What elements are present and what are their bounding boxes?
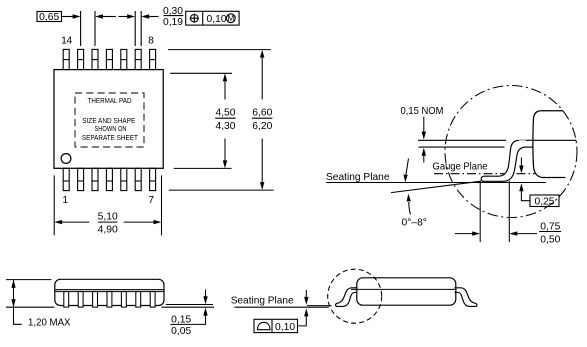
svg-text:4,90: 4,90 bbox=[98, 225, 118, 236]
top pins row (pins 14..8) bbox=[63, 49, 155, 69]
detail boundary dash-dot circle bbox=[445, 86, 577, 218]
0,65 leader arrow to pin2 centerline bbox=[62, 16, 74, 18]
lead frame parting line lower bbox=[55, 291, 163, 293]
5,10/4,90 width dimension bbox=[54, 175, 161, 235]
gull-wing lead (white filled body of lead) bbox=[481, 140, 526, 181]
1,20 MAX leader bbox=[14, 307, 22, 324]
seating plane arrow down bbox=[305, 290, 307, 298]
svg-text:0,10: 0,10 bbox=[207, 14, 227, 25]
seating plane arrow up with leader to flatness frame bbox=[304, 308, 308, 316]
0,75 arrow pointing left bbox=[509, 231, 517, 235]
svg-text:Seating Plane: Seating Plane bbox=[326, 172, 390, 183]
svg-text:0,65: 0,65 bbox=[39, 12, 59, 23]
svg-text:M: M bbox=[227, 13, 234, 23]
thermal pad dashed rectangle bbox=[75, 93, 144, 147]
lead width witness line (pin 6 left edge) bbox=[134, 11, 136, 46]
svg-text:6,60: 6,60 bbox=[252, 108, 272, 119]
package body outline bbox=[54, 70, 163, 169]
0,25 arrow down to gauge plane bbox=[520, 158, 522, 167]
standoff arrow up and leader bbox=[203, 308, 207, 316]
lead tip plane line bbox=[166, 304, 213, 306]
body rounded outline bbox=[55, 279, 164, 305]
lead width arrow pointing right bbox=[119, 16, 128, 18]
feature control frame: position 0,10 M bbox=[186, 11, 239, 25]
svg-text:0,50: 0,50 bbox=[540, 234, 560, 245]
svg-text:0,19: 0,19 bbox=[163, 17, 183, 28]
svg-text:Gauge Plane: Gauge Plane bbox=[433, 161, 488, 172]
svg-text:4,30: 4,30 bbox=[215, 121, 235, 132]
svg-text:0,25: 0,25 bbox=[534, 197, 554, 208]
0,75/0,50 witness line at gauge plane intersect bbox=[508, 181, 510, 242]
svg-text:4,50: 4,50 bbox=[215, 108, 235, 119]
svg-text:Seating Plane: Seating Plane bbox=[231, 295, 294, 306]
0-8 degree angled line bbox=[391, 181, 481, 192]
svg-text:7: 7 bbox=[148, 195, 154, 206]
detail reference dashed circle bbox=[328, 269, 382, 323]
svg-text:14: 14 bbox=[61, 36, 72, 47]
0,75 arrow pointing right bbox=[455, 233, 473, 235]
lead width arrow pointing left bbox=[141, 14, 149, 18]
lead width witness line (pin 6 right edge) bbox=[140, 11, 142, 46]
svg-text:THERMAL PAD: THERMAL PAD bbox=[88, 96, 132, 105]
standoff arrow down bbox=[205, 290, 207, 298]
seating line stub toward left foot bbox=[307, 305, 332, 307]
lead foot bottom edge bbox=[483, 147, 527, 181]
package body outline in detail bbox=[533, 111, 566, 178]
pitch arrow pointing left at pin3 centerline bbox=[95, 14, 103, 18]
lead upper surface line (right of bend, across body) bbox=[520, 139, 577, 141]
4,50/4,30 body length dimension bbox=[170, 73, 232, 168]
bottom pins row (pins 1..7) bbox=[63, 168, 155, 190]
right gull-wing lead bbox=[455, 288, 477, 307]
body rounded outline bbox=[357, 278, 456, 305]
seating plane line bbox=[326, 182, 546, 184]
svg-text:1,20 MAX: 1,20 MAX bbox=[28, 318, 71, 329]
svg-text:0,15: 0,15 bbox=[171, 314, 191, 325]
1,20 MAX dimension line and arrows bbox=[13, 280, 15, 307]
svg-text:0,10: 0,10 bbox=[275, 322, 295, 333]
side view leads bbox=[64, 292, 155, 308]
svg-text:6,20: 6,20 bbox=[252, 121, 272, 132]
svg-text:5,10: 5,10 bbox=[98, 212, 118, 223]
seating plane extension left bbox=[6, 306, 54, 308]
seating plane line right bbox=[162, 306, 215, 308]
pin 1 index circle bbox=[61, 154, 71, 164]
lead tip radius bbox=[481, 176, 484, 181]
svg-text:0°–8°: 0°–8° bbox=[402, 217, 427, 228]
svg-text:0,15 NOM: 0,15 NOM bbox=[401, 106, 444, 117]
leader arrow onto seating plane bbox=[406, 159, 409, 176]
top extension line for 1,20 MAX bbox=[6, 279, 51, 281]
0,15 arrow up to lead bottom bbox=[422, 148, 426, 156]
leader arrow from 0-8 text to angled line bbox=[409, 202, 411, 215]
lead lower surface line (left of bend) bbox=[419, 146, 505, 148]
lead frame parting line upper bbox=[55, 289, 163, 291]
6,60/6,20 overall dimension bbox=[168, 50, 274, 191]
pitch witness line (pin 2 center) bbox=[80, 11, 82, 46]
0,25 dimension box bbox=[530, 195, 559, 207]
flatness feature control frame 0,10 bbox=[254, 319, 298, 333]
gauge plane dash-dot line bbox=[434, 173, 535, 175]
svg-text:SEPARATE SHEET: SEPARATE SHEET bbox=[82, 133, 138, 142]
0,25 leader to box bbox=[521, 191, 530, 201]
svg-text:1: 1 bbox=[62, 195, 68, 206]
svg-text:8: 8 bbox=[148, 36, 154, 47]
lead lower surface line (right of bend, to body edge) bbox=[526, 146, 534, 148]
pitch witness line (pin 3 center) bbox=[94, 11, 96, 46]
0,15 arrow down to lead top bbox=[423, 117, 425, 133]
0,65 pitch dimension box bbox=[37, 12, 62, 24]
lead foot top edge bbox=[484, 140, 519, 176]
0,75/0,50 witness line at lead tip bbox=[479, 182, 481, 242]
lead frame mid line bbox=[351, 288, 457, 290]
svg-text:0,05: 0,05 bbox=[171, 326, 191, 337]
lead upper surface line (left of bend) bbox=[418, 139, 506, 141]
svg-text:SHOWN ON: SHOWN ON bbox=[95, 124, 127, 133]
0,25 arrow up to seating plane bbox=[519, 183, 523, 191]
left gull-wing lead bbox=[336, 288, 358, 307]
